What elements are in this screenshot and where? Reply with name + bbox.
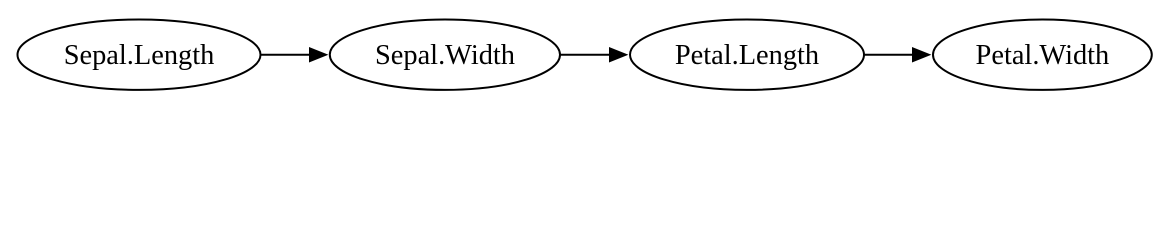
node Sepal.Length [18, 20, 261, 90]
svg-text:Petal.Length: Petal.Length [675, 40, 819, 71]
edge Sepal.Length -> Sepal.Width [261, 48, 328, 62]
node Petal.Length [630, 20, 864, 90]
edge Petal.Length -> Petal.Width [864, 48, 930, 62]
svg-text:Petal.Width: Petal.Width [976, 40, 1110, 71]
svg-text:Sepal.Width: Sepal.Width [375, 40, 515, 71]
node Sepal.Width [330, 20, 560, 90]
node Petal.Width [933, 20, 1152, 90]
edge Sepal.Width -> Petal.Length [560, 48, 627, 62]
svg-text:Sepal.Length: Sepal.Length [64, 40, 215, 71]
